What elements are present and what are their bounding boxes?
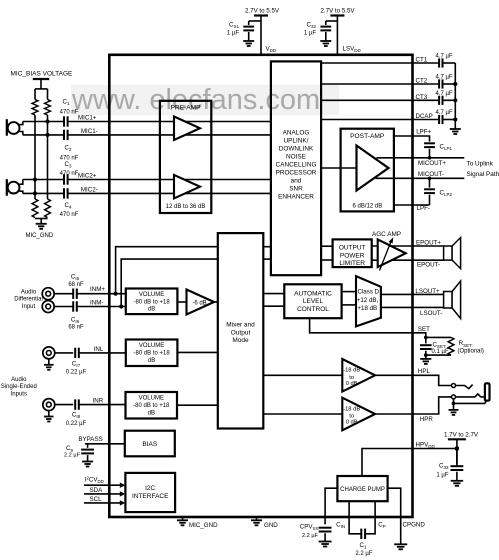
wire C33 to ground	[456, 472, 458, 481]
block VOLUME (INR)	[126, 392, 178, 419]
wire CT3	[321, 99, 455, 101]
svg-text:C4: C4	[65, 202, 72, 210]
svg-text:470 nF: 470 nF	[60, 212, 79, 218]
wire jack sleeve	[454, 399, 486, 403]
capacitor C2	[64, 130, 68, 140]
wire HPVDD	[362, 449, 457, 477]
capacitor C32	[320, 27, 331, 31]
wire MICOUT- to CLP2	[429, 178, 431, 187]
svg-text:INM-: INM-	[90, 300, 103, 307]
ground (CS1)	[243, 41, 254, 46]
wire LPF+	[394, 136, 430, 142]
svg-text:C1: C1	[63, 99, 70, 107]
svg-text:CI6: CI6	[71, 317, 80, 325]
svg-text:Inputs: Inputs	[11, 391, 27, 397]
wire INM+ (cap to volume)	[77, 293, 126, 295]
label Audio Single-Ended Inputs	[1, 377, 37, 398]
wire ALC to class D (upper)	[342, 291, 356, 293]
op-amp post-amp	[357, 146, 389, 191]
wire processor to post-amp	[321, 167, 356, 169]
svg-text:SCL: SCL	[90, 496, 103, 503]
wire INM+ riser to mixer	[116, 247, 218, 294]
svg-text:6 dB/12 dB: 6 dB/12 dB	[353, 204, 383, 210]
svg-text:Audio: Audio	[11, 377, 27, 383]
svg-text:ANALOG: ANALOG	[283, 130, 310, 137]
svg-text:MIC_BIAS VOLTAGE: MIC_BIAS VOLTAGE	[11, 71, 74, 78]
wire HPL to jack contact	[413, 375, 452, 385]
node MIC2+ bias junction	[33, 177, 37, 181]
wire mixer to processor (upper)	[263, 246, 271, 248]
op-amp preamp A2 (MIC2)	[174, 175, 200, 199]
wire HPL amp out	[375, 374, 412, 376]
svg-text:HPR: HPR	[420, 416, 434, 423]
svg-text:C1: C1	[360, 542, 367, 550]
label LPF+	[416, 129, 431, 136]
label BYPASS	[78, 436, 102, 443]
label CIN	[336, 522, 345, 530]
node MIC1+ bias junction	[45, 119, 49, 123]
wire DCAP	[321, 119, 455, 121]
svg-text:-80 dB to +18: -80 dB to +18	[133, 299, 170, 305]
svg-text:MIC1+: MIC1+	[78, 114, 97, 121]
wire volume to -6dB amp	[177, 301, 186, 303]
wire CS1 tap	[249, 21, 261, 25]
node DCAP bus junction	[453, 117, 457, 121]
svg-text:Mode: Mode	[232, 337, 249, 344]
svg-text:CLP2: CLP2	[440, 189, 453, 197]
label INL	[94, 346, 104, 353]
svg-text:-18 dB: -18 dB	[343, 368, 360, 374]
op-amp -6 dB	[187, 290, 215, 315]
wire INM- (cap to volume)	[77, 306, 126, 308]
wire INL volume to mixer	[177, 351, 217, 353]
label AGC AMP	[372, 231, 401, 238]
label CI8 0.22uF	[66, 412, 87, 427]
svg-text:1 µF: 1 µF	[227, 31, 239, 37]
microphone MIC2	[7, 179, 23, 196]
wire MIC2+ (cap to processor)	[68, 179, 271, 181]
label CT1	[416, 57, 428, 64]
wire SET to CSET	[425, 337, 427, 343]
capacitor C1	[64, 116, 68, 126]
wire HPR amp out	[375, 413, 412, 415]
wire MIC2+ (mic to cap)	[23, 179, 64, 181]
pin LSVDD label	[343, 46, 362, 54]
capacitor CI8	[75, 399, 79, 409]
label MIC1+	[78, 114, 97, 121]
svg-text:RSET: RSET	[459, 340, 472, 348]
label MIC1-	[81, 128, 98, 135]
wire HPVDD supply to cap	[456, 449, 458, 467]
wire LSOUT-	[381, 306, 444, 308]
wire MIC2- (cap to processor)	[68, 192, 271, 194]
svg-text:2.7V to 5.5V: 2.7V to 5.5V	[320, 8, 355, 15]
block VOLUME (INM)	[126, 289, 178, 315]
ground (INL jack)	[44, 365, 54, 370]
node MIC2- bias junction	[33, 191, 37, 195]
wire processor to limiter (lower)	[321, 259, 333, 261]
svg-text:GND: GND	[264, 522, 278, 529]
block ANALOG UPLINK/DOWNLINK NOISE CANCELLING PROCESSOR and SNR ENHANCER	[271, 61, 321, 275]
capacitor C33	[451, 466, 464, 470]
capacitor CLP1	[424, 143, 435, 147]
svg-text:Signal Path: Signal Path	[467, 171, 499, 178]
svg-text:LSOUT+: LSOUT+	[415, 288, 440, 295]
arrow AGC gain adjust	[380, 237, 394, 270]
pin VDD label	[266, 46, 277, 54]
label CPGND	[403, 522, 426, 529]
label Audio Differential Input	[14, 289, 43, 310]
svg-text:+12 dB,: +12 dB,	[357, 297, 379, 304]
label 12 dB to 36 dB	[166, 204, 206, 210]
wire CLP2 to LPF-	[429, 195, 431, 205]
wire INL (cap to volume)	[79, 352, 126, 354]
svg-text:4.7 µF: 4.7 µF	[436, 54, 453, 60]
svg-text:Audio: Audio	[21, 289, 37, 295]
label 4.7 uF (CT1)	[436, 54, 453, 60]
svg-text:and: and	[291, 178, 302, 185]
node CT3 bus junction	[453, 98, 457, 102]
label MIC2+	[78, 172, 97, 179]
wire EPOUT- (limiter to speaker)	[372, 259, 444, 261]
wire CPVSS	[325, 488, 337, 524]
label HPVDD	[416, 441, 436, 449]
svg-text:CANCELLING: CANCELLING	[276, 162, 317, 169]
wire SCL	[84, 500, 125, 505]
ground (INR jack)	[44, 417, 54, 422]
svg-text:Class D: Class D	[357, 289, 379, 296]
wire bias splitter	[35, 89, 48, 100]
svg-text:MIC2-: MIC2-	[81, 186, 98, 193]
svg-text:LEVEL: LEVEL	[303, 298, 324, 305]
svg-text:PRE-AMP: PRE-AMP	[170, 104, 201, 111]
svg-text:PROCESSOR: PROCESSOR	[276, 170, 317, 177]
capacitor CT3 4.7uF	[439, 96, 442, 105]
capacitor C9	[81, 450, 94, 454]
block I2C INTERFACE	[125, 473, 175, 512]
svg-text:ENHANCER: ENHANCER	[278, 194, 314, 201]
wire CLP1 to MICOUT+	[429, 149, 431, 158]
block PRE-AMP box	[160, 101, 211, 213]
svg-text:C33: C33	[439, 463, 449, 471]
svg-text:SNR: SNR	[289, 186, 303, 193]
supply HPVDD 1.7V to 2.7V	[444, 431, 479, 464]
wire ALC to class D (lower)	[342, 304, 356, 306]
wire INR (cap to volume)	[79, 404, 126, 406]
wire I2CVDD	[84, 483, 125, 488]
svg-text:LPF-: LPF-	[417, 205, 430, 212]
wire BYPASS	[85, 443, 125, 445]
wire INL jack ground stub	[48, 359, 50, 364]
speaker LSOUT	[444, 281, 461, 319]
svg-text:68 nF: 68 nF	[68, 325, 84, 331]
wire ALC to SET	[310, 318, 413, 333]
ground (CPVSS)	[319, 542, 332, 547]
svg-text:POST-AMP: POST-AMP	[350, 133, 385, 140]
svg-text:HPVDD: HPVDD	[416, 441, 436, 449]
resistor bias R (right top)	[45, 100, 51, 116]
capacitor CPVSS 2.2uF	[319, 528, 332, 532]
svg-text:MICOUT+: MICOUT+	[418, 160, 446, 167]
ground (C33)	[451, 481, 464, 486]
label 4.7 uF (DCAP)	[436, 110, 453, 116]
svg-text:CSET: CSET	[433, 341, 446, 349]
capacitor CSET	[420, 345, 432, 349]
connector headphone jack body	[485, 383, 490, 400]
capacitor CS1	[243, 27, 254, 31]
label LSOUT-	[420, 310, 442, 317]
label C1 2.2uF (flying cap)	[355, 542, 372, 557]
svg-text:CPVSS: CPVSS	[300, 523, 319, 531]
svg-text:+18 dB: +18 dB	[357, 305, 377, 312]
node MIC1- bias junction	[45, 133, 49, 137]
block CHARGE PUMP	[337, 476, 387, 501]
ground (CT bus)	[450, 129, 461, 134]
block Mixer and Output Mode	[218, 233, 263, 428]
node jack ground junction	[452, 402, 456, 406]
label HPR	[420, 416, 434, 423]
svg-text:2.7V to 5.5V: 2.7V to 5.5V	[245, 8, 280, 15]
wire SET external	[413, 333, 426, 338]
label CLP2	[440, 189, 453, 197]
ground (C9)	[82, 462, 93, 467]
node CLP1 junction	[428, 156, 432, 160]
label C2 470nF	[60, 145, 79, 162]
svg-text:EPOUT+: EPOUT+	[416, 239, 441, 246]
capacitor C3	[64, 174, 68, 184]
label To Uplink Signal Path	[467, 161, 499, 179]
capacitor C1 (flying cap)	[361, 529, 365, 539]
svg-text:Input: Input	[22, 304, 36, 310]
svg-text:INM+: INM+	[90, 286, 105, 293]
svg-text:DCAP: DCAP	[416, 113, 433, 120]
svg-text:MICOUT-: MICOUT-	[418, 171, 444, 178]
supply MIC_BIAS bar	[33, 79, 49, 89]
ground GND (chip pin)	[251, 517, 262, 525]
svg-text:-6 dB: -6 dB	[192, 300, 206, 306]
svg-text:AGC AMP: AGC AMP	[372, 231, 401, 238]
svg-text:4.7 µF: 4.7 µF	[436, 110, 453, 116]
wire bias left column	[34, 115, 36, 199]
capacitor CI7	[75, 348, 79, 358]
wire mixer to HPR amp	[263, 413, 342, 415]
node HPR jack contact	[452, 395, 456, 399]
wire CP	[365, 501, 375, 534]
svg-text:68 nF: 68 nF	[68, 282, 84, 288]
wire MIC1+ (cap to processor)	[68, 121, 271, 123]
node HPVDD junction	[455, 446, 460, 451]
svg-text:LSVDD: LSVDD	[343, 46, 362, 54]
label SDA	[90, 487, 104, 494]
op-amp HPL -18dB to 0dB	[342, 359, 375, 392]
watermark band	[71, 85, 339, 115]
svg-text:MIC_GND: MIC_GND	[189, 522, 218, 529]
wire INR jack ground stub	[48, 411, 50, 416]
label SCL	[90, 496, 103, 503]
wire BYPASS to C9	[87, 444, 89, 448]
wire C32 tap	[326, 21, 338, 25]
svg-text:CPGND: CPGND	[403, 522, 426, 529]
resistor gnd R (right bottom)	[45, 199, 51, 218]
op-amp preamp A1 (MIC1)	[174, 117, 200, 141]
svg-text:470 nF: 470 nF	[60, 156, 79, 162]
label CI7 0.22uF	[66, 360, 87, 375]
block OUTPUT POWER LIMITER	[333, 239, 372, 267]
label C32 1uF	[304, 22, 317, 37]
label C9 2.2uF	[64, 445, 81, 458]
wire bias bottom join	[35, 219, 48, 224]
node INM- riser junction	[119, 304, 123, 308]
svg-text:2.2 µF: 2.2 µF	[355, 551, 372, 557]
svg-text:Single-Ended: Single-Ended	[1, 384, 37, 390]
label C33 1uF	[436, 463, 449, 479]
svg-text:CHARGE PUMP: CHARGE PUMP	[340, 487, 385, 493]
svg-text:4.7 µF: 4.7 µF	[436, 75, 453, 81]
svg-text:UPLINK/: UPLINK/	[284, 138, 309, 145]
wire MIC2- (mic to cap)	[23, 192, 64, 194]
wire -6dB amp to mixer	[214, 301, 218, 303]
svg-text:CLP1: CLP1	[440, 143, 453, 151]
svg-text:MIC_GND: MIC_GND	[26, 233, 54, 239]
svg-text:Differential: Differential	[14, 297, 43, 303]
svg-text:0 dB: 0 dB	[346, 381, 358, 387]
wire mixer to ALC (lower)	[263, 305, 284, 307]
label CI6 68nF	[68, 317, 84, 331]
wire mixer to HPL amp	[263, 374, 342, 376]
label CP	[378, 522, 385, 530]
label 4.7 uF (CT2)	[436, 75, 453, 81]
node HPL jack contact	[452, 384, 456, 388]
wire mixer to processor (lower)	[263, 258, 271, 260]
svg-text:Mixer and: Mixer and	[226, 321, 255, 328]
svg-text:I2C: I2C	[145, 485, 155, 492]
label HPL	[418, 368, 431, 375]
svg-text:1 µF: 1 µF	[436, 473, 448, 479]
label I2CVDD	[85, 475, 104, 484]
svg-text:CT1: CT1	[416, 57, 428, 64]
watermark text www.elecfans.com	[71, 84, 320, 116]
svg-text:2.2 µF: 2.2 µF	[302, 533, 319, 539]
svg-text:4.7 µF: 4.7 µF	[436, 91, 453, 97]
wire CS1 to ground	[248, 32, 250, 41]
svg-text:NOISE: NOISE	[286, 154, 306, 161]
wire MIC1- (cap to processor)	[68, 134, 271, 136]
capacitor DCAP 4.7uF	[439, 115, 442, 124]
svg-text:I2CVDD: I2CVDD	[85, 475, 104, 484]
wire SDA	[84, 491, 125, 496]
svg-text:1.7V to 2.7V: 1.7V to 2.7V	[444, 431, 479, 438]
wire to RSET (top)	[426, 336, 451, 338]
block VOLUME (INL)	[126, 340, 178, 367]
svg-text:VOLUME: VOLUME	[139, 396, 164, 402]
capacitor CLP2	[424, 189, 435, 193]
label CLP1	[440, 143, 453, 151]
wire CT2	[321, 83, 455, 85]
svg-text:CI5: CI5	[71, 274, 80, 282]
label CPVSS 2.2uF	[300, 523, 319, 539]
wire MICOUT-	[376, 177, 465, 179]
label POST-AMP	[350, 133, 385, 140]
connector INM- input jack	[42, 301, 54, 313]
amplifier Class D +12dB +18dB	[356, 276, 381, 326]
ground (C32)	[320, 41, 331, 46]
svg-text:dB: dB	[148, 358, 155, 364]
wire INM- riser to mixer	[121, 259, 218, 306]
wire from RSET (bottom)	[426, 354, 451, 356]
wire LPF-	[394, 204, 430, 206]
resistor RSET (optional)	[448, 337, 454, 355]
svg-text:VOLUME: VOLUME	[139, 343, 164, 349]
label LSOUT+	[415, 288, 440, 295]
svg-text:EPOUT-: EPOUT-	[417, 262, 440, 269]
svg-text:LSOUT-: LSOUT-	[420, 310, 442, 317]
svg-text:CS1: CS1	[229, 22, 239, 30]
ground (headphone jack)	[449, 410, 459, 415]
svg-text:OUTPUT: OUTPUT	[339, 245, 366, 252]
capacitor C4	[64, 188, 68, 198]
wire SET to ground	[425, 355, 427, 358]
svg-text:HPL: HPL	[418, 368, 431, 375]
connector INM+ input jack	[42, 288, 54, 300]
label SET	[418, 326, 430, 333]
block BIAS	[125, 431, 175, 457]
op-amp AGC AMP	[378, 239, 406, 267]
wire bias right column	[47, 115, 49, 199]
wire mixer to ALC (upper)	[263, 293, 284, 295]
svg-text:470 nF: 470 nF	[60, 109, 79, 115]
label CT3	[416, 94, 428, 101]
resistor bias R (left top)	[32, 100, 38, 116]
label CS1 1uF	[227, 22, 240, 37]
label CT2	[416, 78, 428, 85]
svg-text:12 dB to 36 dB: 12 dB to 36 dB	[166, 204, 206, 210]
svg-text:CI7: CI7	[72, 360, 81, 368]
ground (SET)	[420, 359, 431, 364]
svg-text:CP: CP	[378, 522, 385, 530]
label MICOUT-	[418, 171, 444, 178]
wire jack ground stub	[453, 403, 455, 409]
label MIC2-	[81, 186, 98, 193]
wire INM+ (jack to cap)	[54, 293, 73, 295]
svg-text:LPF+: LPF+	[416, 129, 431, 136]
label RSET (Optional)	[458, 340, 484, 355]
svg-text:INL: INL	[94, 346, 104, 353]
label CSET 0.1uF	[432, 341, 449, 355]
wire CT1	[321, 62, 455, 64]
svg-text:-18 dB: -18 dB	[343, 406, 360, 412]
capacitor CI5	[73, 289, 77, 299]
wire EPOUT+ (limiter to speaker)	[372, 245, 444, 247]
svg-text:0 dB: 0 dB	[346, 420, 358, 426]
label C4 470nF	[60, 202, 79, 218]
svg-text:470 nF: 470 nF	[60, 171, 79, 177]
svg-text:-80 dB to +18: -80 dB to +18	[133, 403, 170, 409]
wire CIN	[349, 501, 361, 534]
label MIC_BIAS VOLTAGE	[11, 71, 74, 78]
wire MIC1+ (mic to cap)	[23, 121, 64, 123]
label INM-	[90, 300, 103, 307]
svg-text:CT3: CT3	[416, 94, 428, 101]
label MICOUT+	[418, 160, 446, 167]
svg-text:dB: dB	[148, 307, 155, 313]
svg-text:AUTOMATIC: AUTOMATIC	[294, 290, 332, 297]
wire HPR to jack contact	[413, 397, 452, 414]
ground (CPGND)	[394, 544, 407, 549]
svg-text:POWER: POWER	[340, 252, 365, 259]
svg-text:LIMITER: LIMITER	[339, 260, 365, 267]
svg-text:CIN: CIN	[336, 522, 345, 530]
wire processor to limiter (upper)	[321, 245, 333, 247]
